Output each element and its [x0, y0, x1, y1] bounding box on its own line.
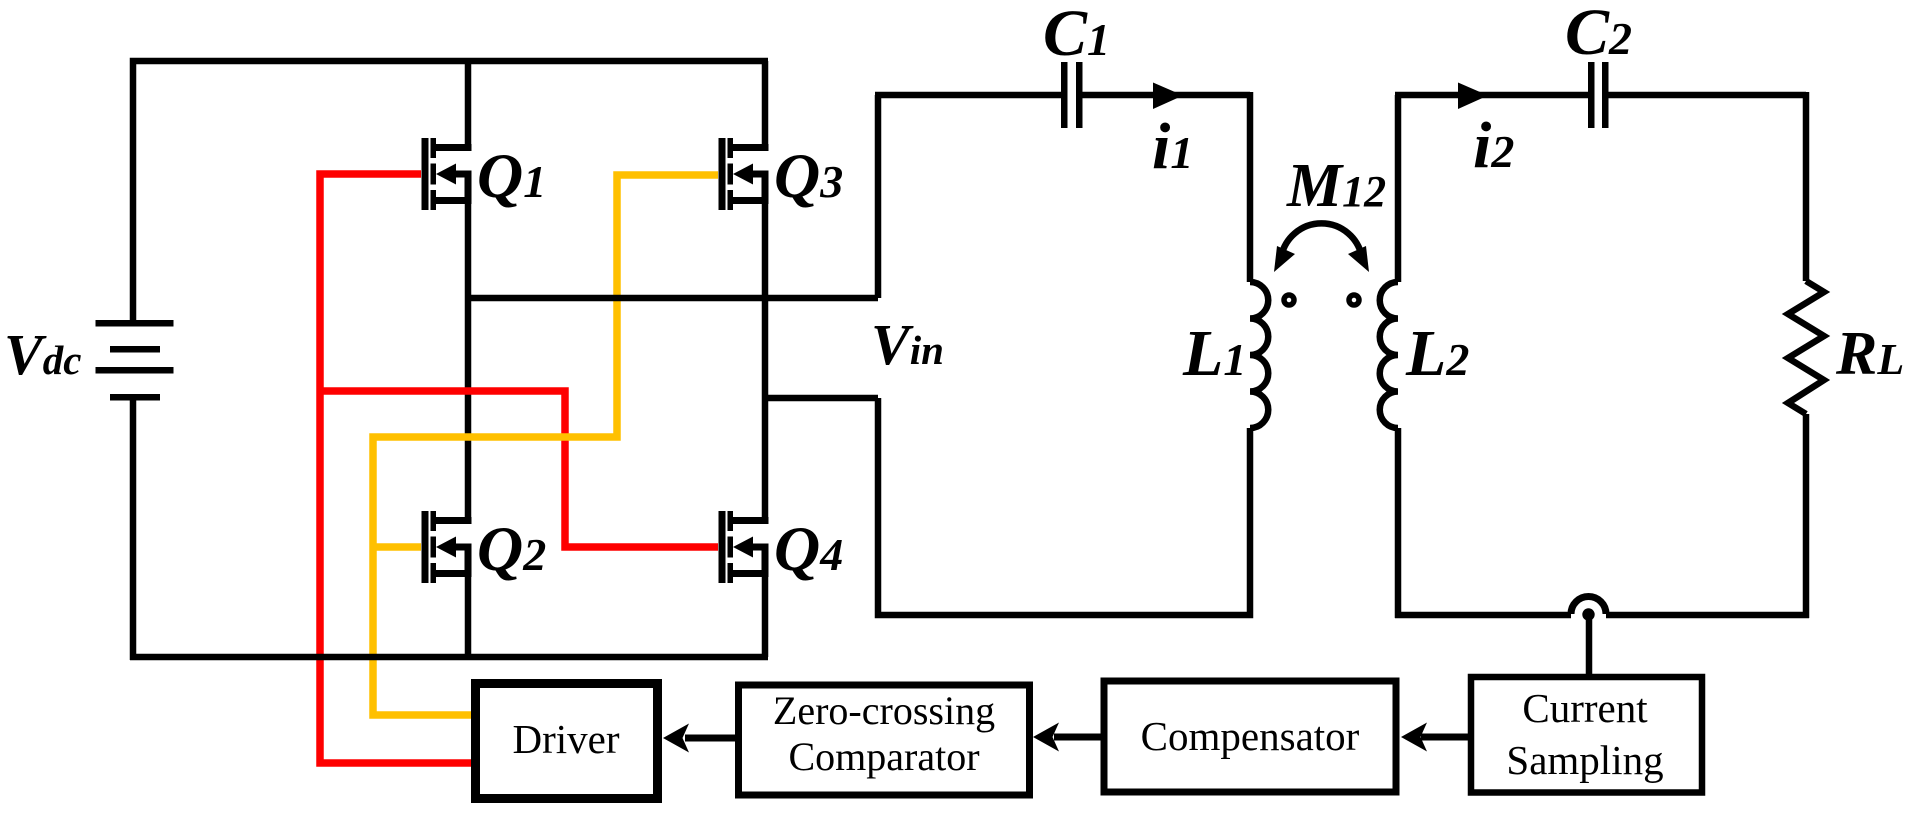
wire: left leg middle column (Q1 source to Q2 drain) [465, 198, 472, 524]
transistor Q2 [422, 511, 472, 583]
wire: tank2 bottom wire left of sensor [1395, 612, 1571, 619]
arrow: zero-crossing comparator to driver [663, 724, 737, 753]
dot: L2 polarity dot [1349, 295, 1359, 305]
box: Current Sampling [1471, 677, 1702, 793]
wire: tank1 top wire right of C1 [1082, 92, 1250, 99]
capacitor C2 [1588, 62, 1609, 128]
arrow: compensator to zero-crossing comparator [1033, 723, 1102, 752]
transistor Q3 [719, 138, 769, 210]
wire: tank2 left vertical above L2 [1395, 95, 1402, 282]
transistor Q1 [422, 138, 472, 210]
wire: red gate drive from driver to Q1 gate [320, 174, 474, 763]
wire: right leg midpoint to tank1 bottom terminal [765, 395, 878, 402]
wire: tank2 top wire right of C2 [1608, 92, 1806, 99]
transistor Q4 [719, 511, 769, 583]
wire: tank2 top wire left of C2 [1395, 92, 1588, 99]
arrow: i2 current direction [1458, 83, 1488, 110]
wire: right leg drain column (top rail to Q3) [762, 61, 769, 151]
wire: tank2 bottom wire right of sensor [1606, 612, 1809, 619]
resistor RL [1788, 281, 1824, 414]
label Zero-crossing Comparator [773, 688, 995, 779]
sensor: current sampling pickup arc [1571, 597, 1606, 614]
box: Zero-crossing Comparator [739, 685, 1030, 795]
wire: left leg bottom column (Q2 source to bottom rail) [465, 571, 472, 657]
wire: left leg midpoint to tank1 top terminal [466, 295, 878, 302]
box: Compensator [1104, 681, 1396, 792]
wire: right leg bottom column (Q4 source to bottom rail) [762, 571, 769, 657]
node: current sampling tap dot [1582, 608, 1594, 620]
box: Driver [476, 684, 658, 799]
inductor L2 [1380, 282, 1398, 428]
label Current Sampling [1506, 685, 1663, 783]
wire: tank1 right vertical below L1, bottom wire, left vertical lower segment [878, 398, 1250, 615]
svg-text:Zero-crossing: Zero-crossing [773, 688, 995, 733]
wire: tank2 right vertical below RL [1803, 414, 1810, 618]
wire: tank1 right vertical above L1 [1247, 92, 1254, 282]
wire: yellow gate drive from driver to Q3 gate [373, 175, 718, 715]
wire: left leg drain column (top rail to Q1) [465, 61, 472, 151]
dot: L1 polarity dot [1284, 295, 1294, 305]
svg-text:Comparator: Comparator [788, 734, 979, 779]
svg-text:Driver: Driver [512, 716, 619, 762]
svg-text:Compensator: Compensator [1141, 713, 1360, 759]
wire: tank2 right vertical above RL [1803, 92, 1810, 281]
capacitor C1 [1061, 62, 1083, 128]
wire: tank1 top wire left of C1 [875, 92, 1061, 99]
svg-text:Current: Current [1522, 685, 1648, 731]
arrow: mutual coupling arc [1274, 223, 1369, 272]
arrow: current sampling to compensator [1401, 723, 1468, 752]
wire: battery bottom lead [130, 400, 137, 660]
wire: right leg middle column (Q3 source to Q4 drain) [762, 198, 769, 524]
wire: battery top lead and bridge top rail [133, 61, 768, 320]
wire: red gate drive branch to Q4 gate [317, 391, 719, 547]
wire: tap to current sampling box [1586, 615, 1593, 677]
battery Vdc [96, 320, 174, 401]
inductor L1 [1250, 282, 1268, 428]
wire: bridge bottom rail [130, 654, 768, 661]
wire: tank1 left vertical upper segment [875, 95, 882, 298]
wire: tank2 left vertical below L2 [1395, 428, 1402, 618]
arrow: i1 current direction [1153, 83, 1183, 110]
svg-text:Sampling: Sampling [1506, 737, 1663, 783]
wire: yellow gate drive branch to Q2 gate [370, 543, 422, 551]
